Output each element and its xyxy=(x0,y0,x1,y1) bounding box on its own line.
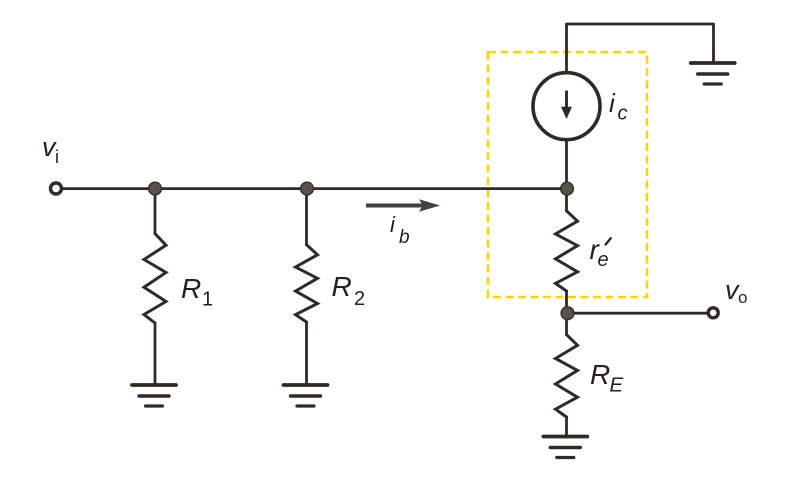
svg-text:i: i xyxy=(390,212,396,237)
svg-text:1: 1 xyxy=(202,289,213,311)
svg-text:e: e xyxy=(598,249,609,271)
svg-text:i: i xyxy=(609,88,616,118)
svg-text:c: c xyxy=(618,103,628,125)
svg-text:R: R xyxy=(590,359,610,390)
svg-text:b: b xyxy=(399,227,410,248)
svg-text:R: R xyxy=(181,273,201,304)
svg-text:o: o xyxy=(738,288,747,307)
svg-text:R: R xyxy=(332,271,352,302)
svg-text:2: 2 xyxy=(354,288,365,310)
svg-text:i: i xyxy=(55,147,59,167)
svg-text:E: E xyxy=(610,374,624,397)
